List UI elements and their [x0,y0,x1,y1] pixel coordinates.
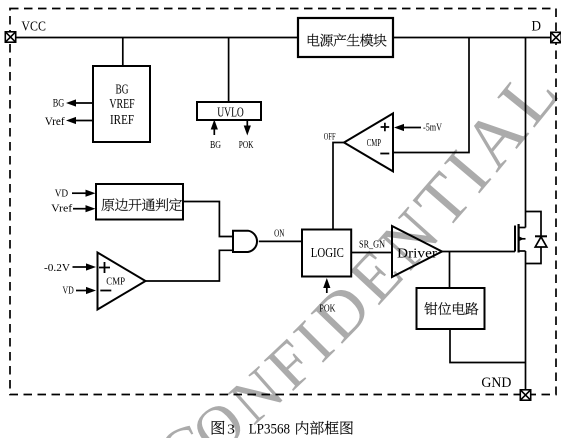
svg-text:D: D [532,19,542,35]
svg-text:UVLO: UVLO [217,106,244,121]
block U1 power generation module box [298,18,393,57]
U4 minus input sign [380,153,389,155]
wire U6 output to AND gate bottom input [146,250,234,281]
block U5 primary turn-on decision box [96,184,183,220]
svg-text:-0.2V: -0.2V [44,262,70,274]
svg-text:IREF: IREF [110,113,134,128]
svg-text:VD: VD [55,188,68,200]
wire rail drop to MOSFET drain [525,38,527,228]
wire SR_GN from LOGIC to Driver [351,252,392,254]
body diode D1 branch bottom wire [526,247,542,264]
wire U5 output to AND gate top input [183,202,233,237]
VD input arrow into U6 minus [76,287,96,294]
svg-text:VCC: VCC [21,20,46,35]
svg-text:3: 3 [227,423,235,438]
svg-text:POK: POK [239,139,254,151]
body diode D1 cathode bar [535,235,547,237]
svg-text:VD: VD [63,285,74,297]
pin D [551,32,561,42]
comparator U6 (turn-on comparator, points right) [98,253,146,310]
watermark CONFIDENTIAL (decorative overlay, behind circuit) [150,54,561,438]
svg-text:Vref: Vref [51,203,72,215]
buffer U9 Driver triangle [392,226,442,277]
wire VCC rail left segment [16,37,299,39]
wire VCC rail right segment [393,37,551,39]
POK input arrow into U8 [323,278,330,293]
-0.2V input arrow into U6 plus [73,263,97,270]
svg-text:ON: ON [274,228,284,239]
svg-text:CMP: CMP [367,138,381,149]
U6 plus input sign [99,262,110,273]
wire rail drop to UVLO block [228,38,230,103]
caption CJK 内部框图 (internal block diagram) [296,421,353,435]
transistor Q1 gate bar [514,226,516,252]
svg-text:Driver: Driver [397,246,438,261]
wire U7 output (ON) to LOGIC [259,240,302,242]
label text 原边开通判定 (primary turn-on decision) [102,198,182,211]
caption CJK 图 (figure) [212,421,225,435]
comparator U4 (OFF comparator, points left) [344,113,393,171]
transistor Q1 body stub with arrow [519,236,526,241]
svg-text:LP3568: LP3568 [249,422,290,438]
svg-text:POK: POK [319,303,335,315]
VD input arrow into U5 [72,190,96,197]
wire Q1 source down to GND pin [525,251,527,390]
svg-text:BG: BG [53,96,65,110]
svg-text:VREF: VREF [109,97,134,112]
body diode D1 branch top wire [526,212,542,237]
transistor Q1 drain stub [519,227,526,229]
wire drop to clamp circuit [449,252,451,289]
wire Driver output to MOSFET gate [442,251,515,253]
svg-text:OFF: OFF [324,131,336,141]
wire clamp circuit to MOSFET source [450,329,526,363]
label text 电源产生模块 (power generation module) [308,34,387,47]
Vref input arrow into U5 [73,205,96,212]
svg-text:LOGIC: LOGIC [311,246,344,261]
wire U4 output to LOGIC top [333,143,344,230]
body diode D1 triangle [535,237,547,247]
AND gate U7 [233,231,257,252]
wire riser from CMP minus input to rail [393,38,469,153]
U4 plus input sign [381,123,390,132]
BG input arrow into UVLO [211,120,218,136]
pin VCC [5,32,15,42]
svg-text:CMP: CMP [106,276,125,287]
svg-text:SR_GN: SR_GN [359,239,385,250]
POK output arrow from UVLO [244,120,251,136]
U6 minus input sign [100,290,111,292]
block U8 LOGIC box [302,230,351,277]
svg-text:GND: GND [481,375,511,391]
svg-text:-5mV: -5mV [423,122,443,133]
label text 钳位电路 (clamp circuit) [424,302,478,315]
transistor Q1 source stub [519,250,526,252]
block U10 clamp circuit box [417,288,485,329]
pin GND [520,390,530,400]
transistor Q1 channel bar [517,224,519,253]
svg-text:Vref: Vref [45,114,65,128]
svg-text:BG: BG [210,139,221,151]
block U2 bandgap reference box [93,66,150,142]
BG output arrow from U2 [66,99,93,106]
-5mV reference arrow into U4 plus input [394,124,421,131]
block U3 UVLO box [197,102,261,120]
wire rail drop to BG/VREF/IREF block [122,38,124,67]
Vref output arrow from U2 [66,117,93,124]
svg-text:BG: BG [116,83,129,98]
